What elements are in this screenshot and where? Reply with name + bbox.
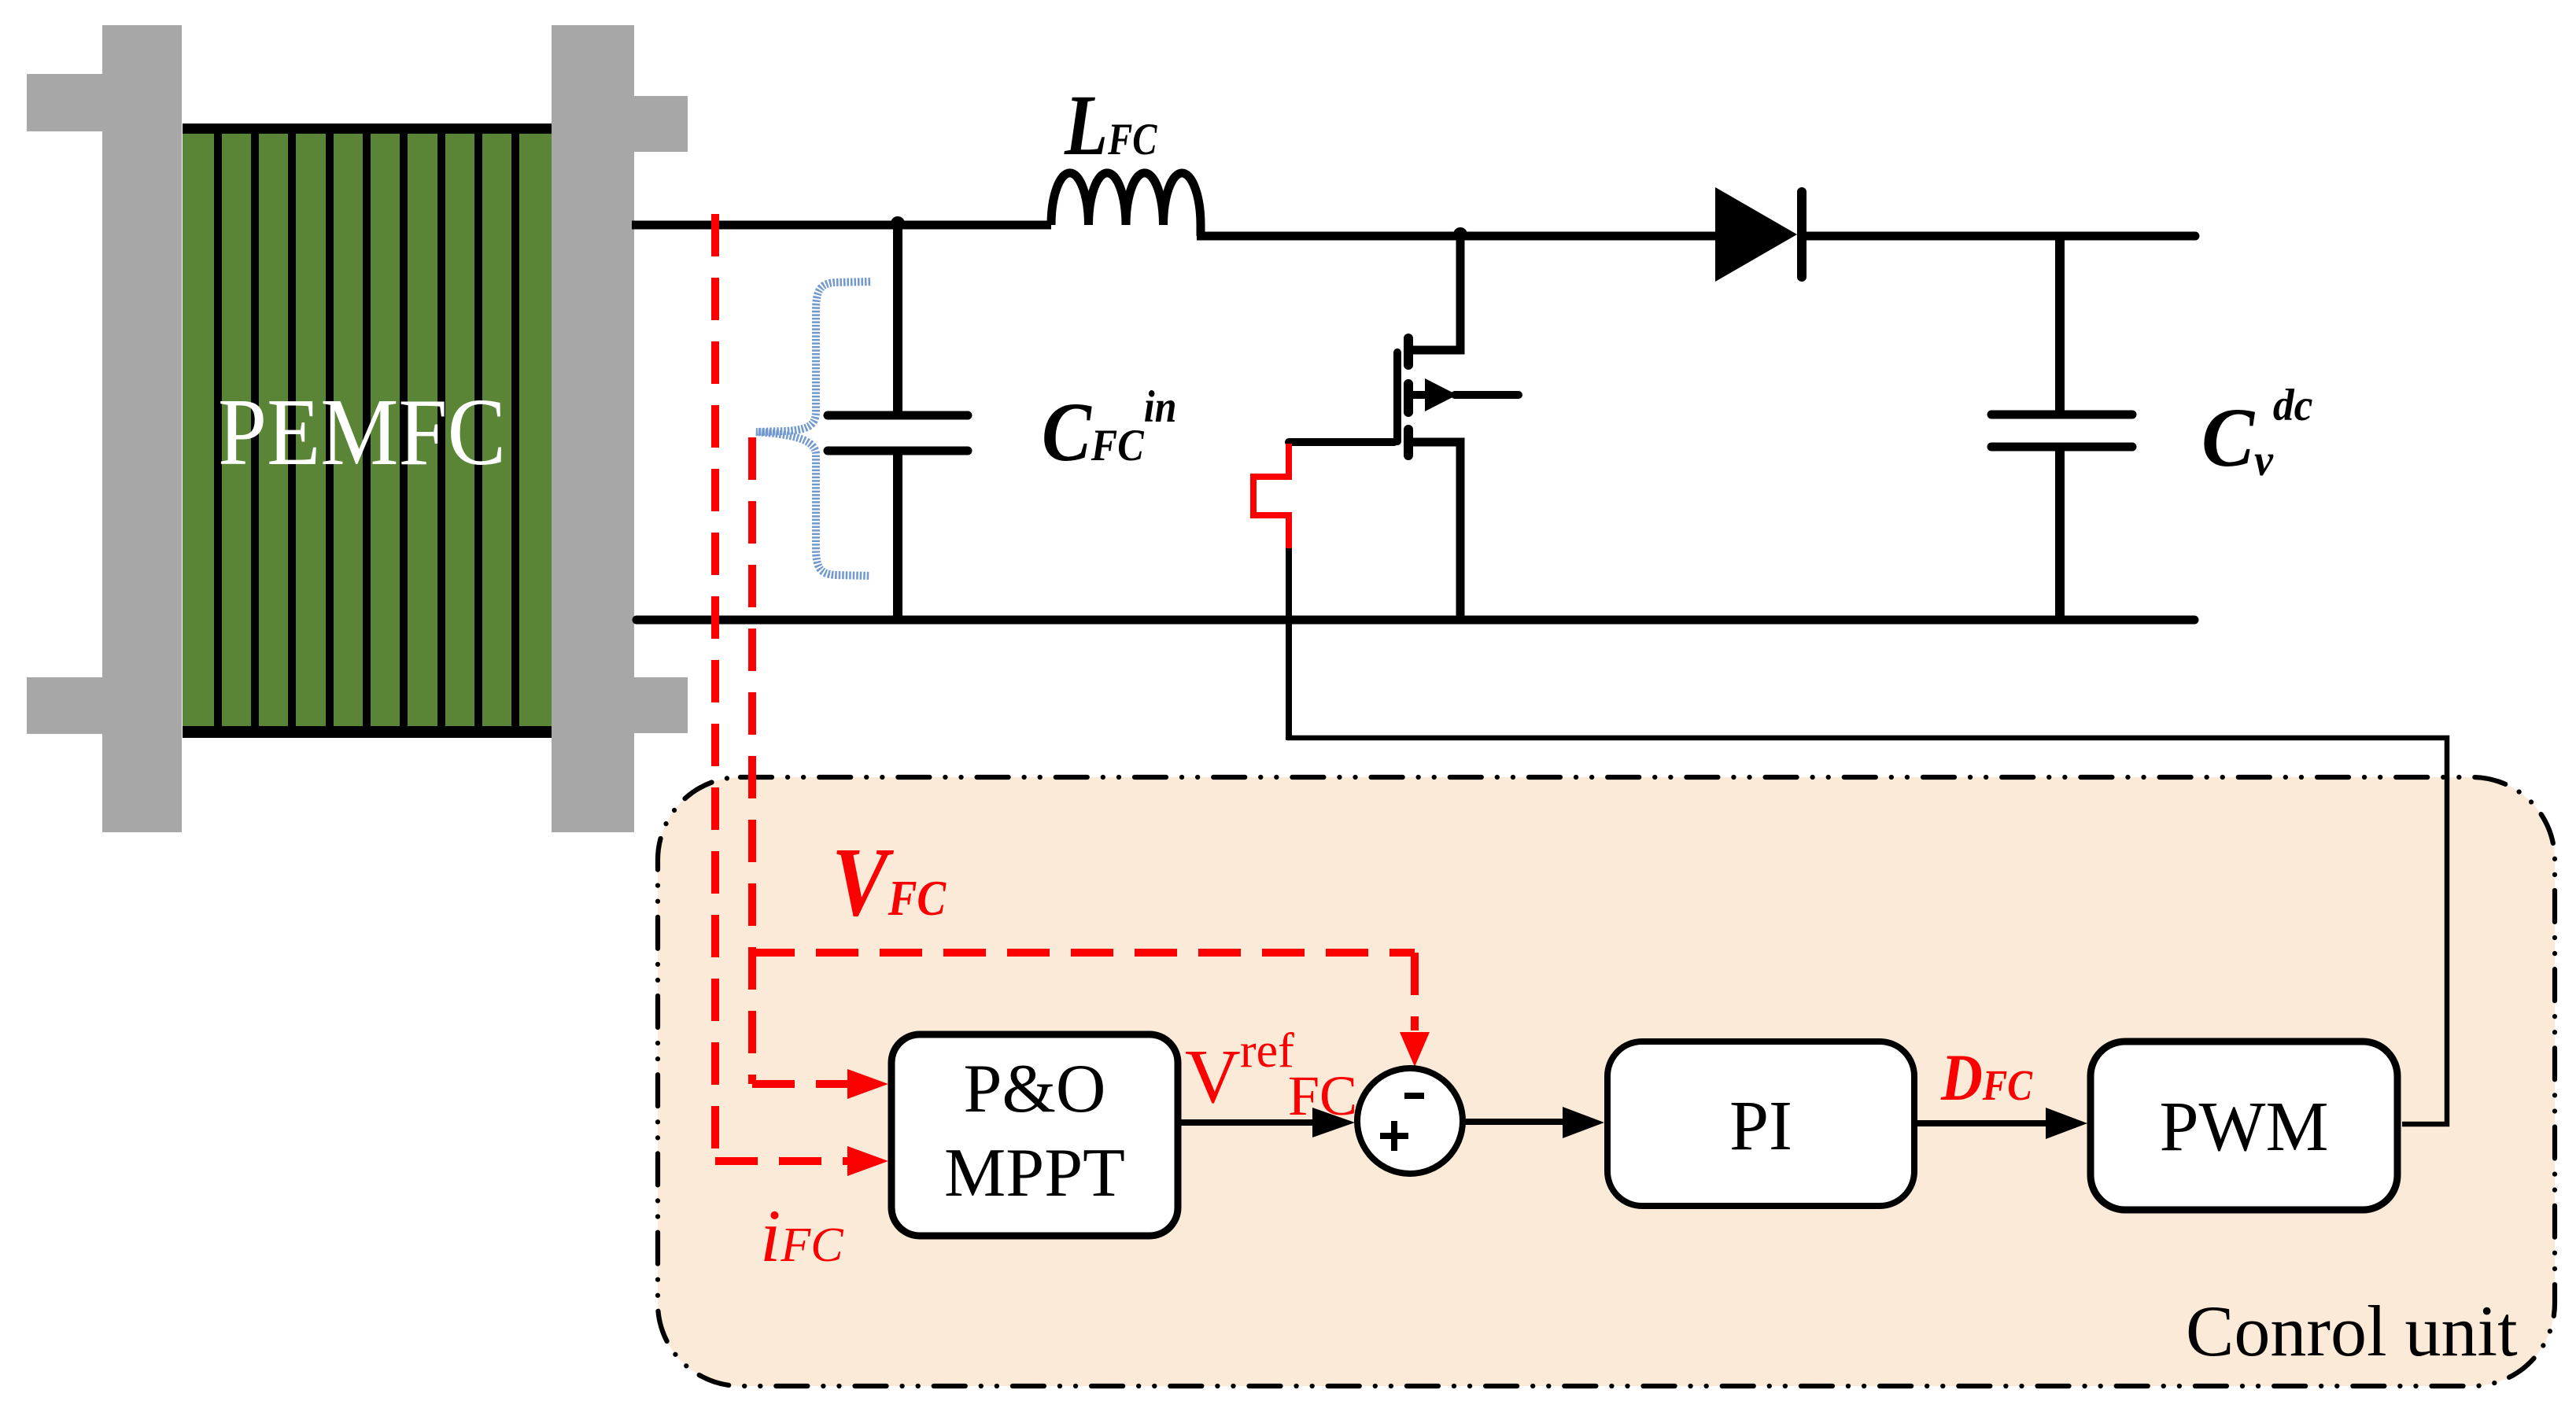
node: cap-in junction xyxy=(891,216,905,230)
wire diode cathode to output xyxy=(1807,232,2195,241)
wire PWM feedback to gate xyxy=(1287,738,2447,1124)
inductor LFC xyxy=(1051,173,1201,236)
capacitor CFCin xyxy=(828,225,968,620)
cell body xyxy=(183,134,552,726)
cell bottom border xyxy=(183,726,552,738)
wire summer to PI xyxy=(1465,1119,1563,1125)
block P&O MPPT xyxy=(891,1034,1178,1236)
endplate right bottom tab xyxy=(606,677,688,733)
svg-text:PEMFC: PEMFC xyxy=(218,380,506,486)
svg-text:Conrol unit: Conrol unit xyxy=(2186,1291,2518,1371)
svg-text:P&O: P&O xyxy=(964,1051,1106,1127)
svg-text:V: V xyxy=(1185,1034,1241,1119)
endplate left bottom tab xyxy=(27,677,105,734)
wire top rail left xyxy=(632,221,1051,230)
gate pulse symbol xyxy=(1253,444,1289,550)
wire inductor to diode anode xyxy=(1197,232,1720,241)
transistor Q (MOSFET) xyxy=(1289,236,1519,620)
node: drain junction xyxy=(1453,227,1467,241)
endplate right top tab xyxy=(606,96,688,152)
diode D xyxy=(1715,187,1797,282)
drain wire xyxy=(1409,236,1460,350)
gate bar xyxy=(1393,352,1401,441)
endplate left top tab xyxy=(27,74,105,131)
svg-text:ref: ref xyxy=(1240,1024,1294,1078)
capacitor Cvdc xyxy=(1991,236,2132,620)
source wire xyxy=(1412,442,1460,620)
PEMFC stack xyxy=(27,25,688,832)
wire MPPT to summer xyxy=(1181,1119,1316,1126)
svg-text:MPPT: MPPT xyxy=(944,1135,1125,1211)
sense line VFC (red dashed) xyxy=(752,437,1415,1084)
wire gate drive vertical xyxy=(1286,548,1292,740)
sense line iFC (red dashed) xyxy=(715,214,854,1161)
wire PI to PWM xyxy=(1917,1120,2046,1126)
cell stripes xyxy=(214,134,519,726)
block PI xyxy=(1607,1042,1914,1206)
svg-text:PWM: PWM xyxy=(2159,1088,2328,1166)
block PWM xyxy=(2091,1042,2397,1210)
gate lead xyxy=(1289,438,1394,446)
channel segments xyxy=(1404,338,1413,365)
wire bottom rail xyxy=(637,616,2194,625)
cell top border xyxy=(183,124,552,134)
svg-text:PI: PI xyxy=(1729,1087,1792,1165)
endplate left bar xyxy=(102,25,182,832)
endplate right bar xyxy=(552,25,634,832)
summing junction xyxy=(1357,1068,1463,1174)
control unit box xyxy=(658,777,2555,1386)
brace (blue) xyxy=(756,282,870,576)
body arrow xyxy=(1412,391,1428,399)
